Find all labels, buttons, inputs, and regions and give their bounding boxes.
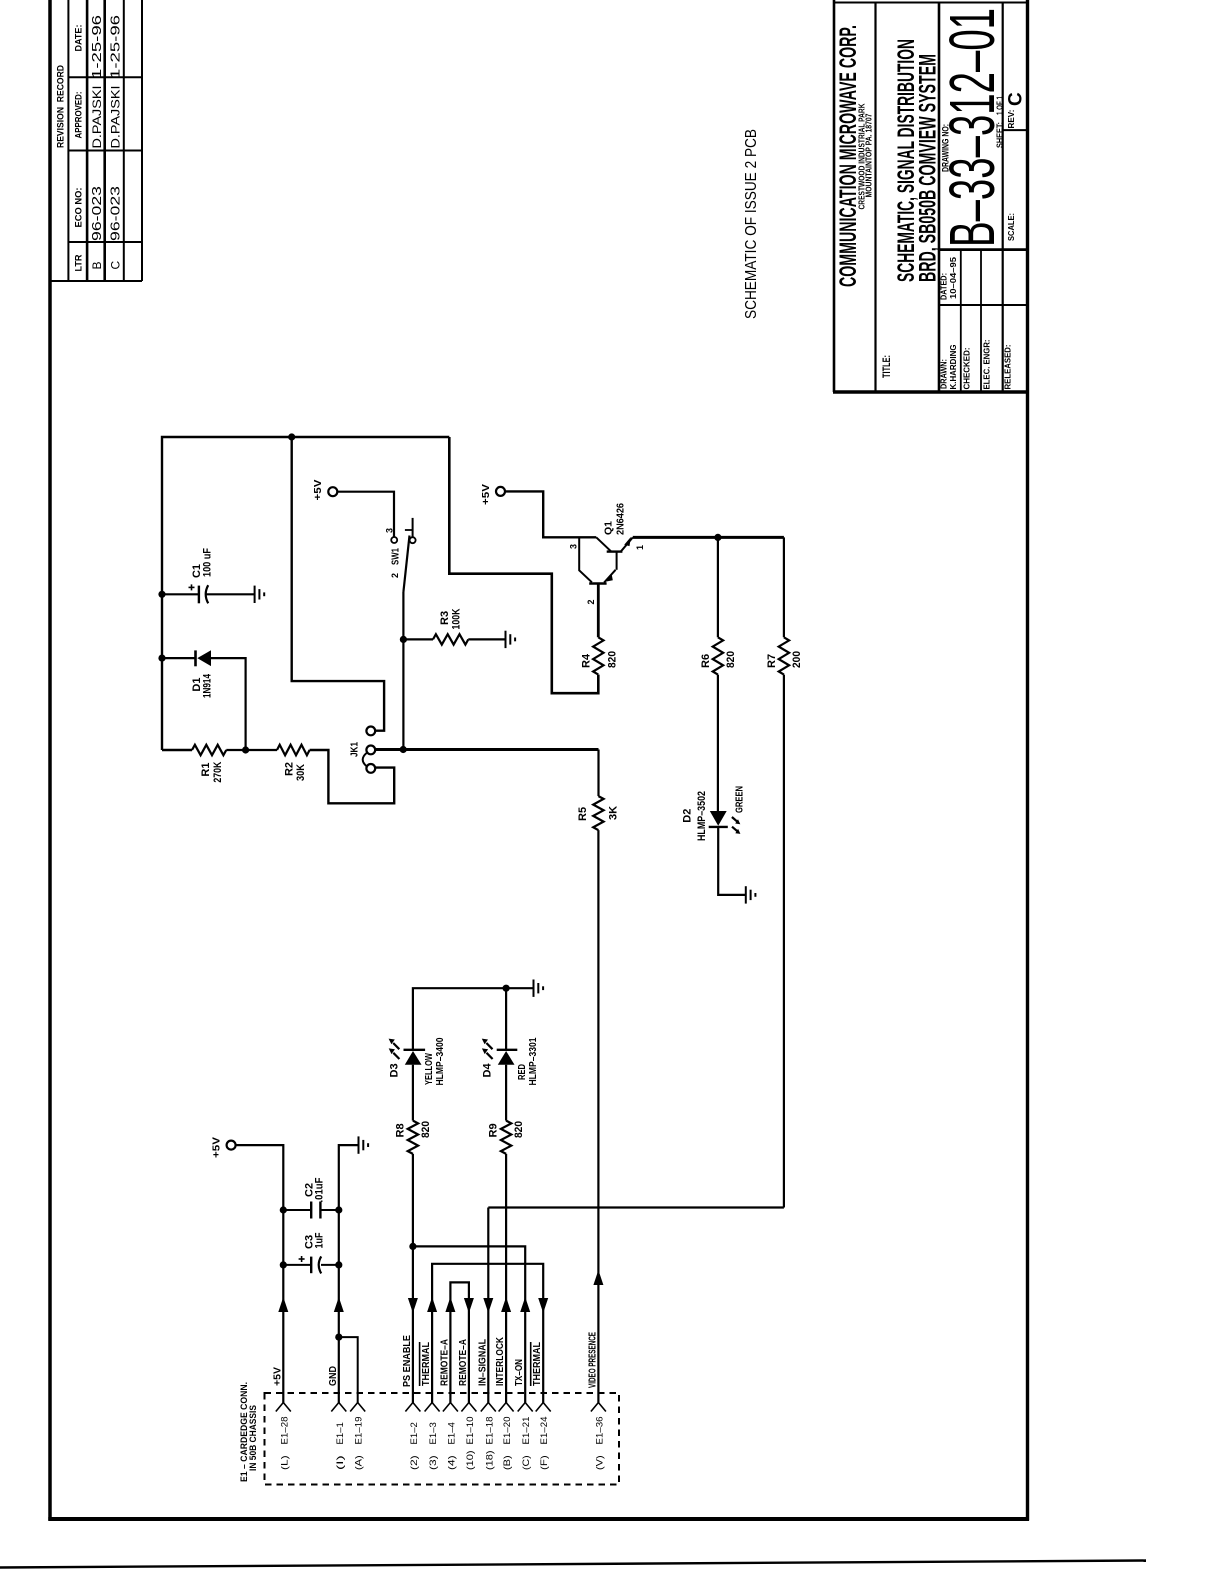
svg-text:270K: 270K	[212, 762, 224, 783]
svg-text:E1–36: E1–36	[594, 1417, 605, 1445]
svg-text:(B): (B)	[502, 1455, 513, 1470]
svg-text:D4: D4	[482, 1063, 494, 1078]
wire THERMAL pair	[432, 1264, 543, 1403]
svg-text:RELEASED:: RELEASED:	[1003, 344, 1013, 389]
svg-text:REMOTE–A: REMOTE–A	[458, 1339, 469, 1386]
svg-text:JK1: JK1	[350, 742, 361, 757]
wire JK1 wire down to R5	[597, 750, 599, 797]
svg-text:B: B	[90, 261, 104, 269]
svg-text:TX–ON: TX–ON	[514, 1359, 525, 1386]
svg-text:(I): (I)	[335, 1455, 346, 1470]
svg-text:ELEC. ENGR:: ELEC. ENGR:	[982, 339, 992, 389]
capacitor C2 stub left	[283, 1209, 311, 1211]
svg-text:THERMAL: THERMAL	[532, 1342, 543, 1386]
transistor Q1 emitter diagonal upper	[621, 537, 633, 551]
led D3 cathode bar	[404, 1049, 426, 1051]
jack JK1 lever arc	[363, 753, 367, 767]
svg-text:C: C	[109, 261, 123, 270]
svg-text:(A): (A)	[354, 1455, 365, 1470]
wire GND rail	[339, 1145, 359, 1402]
ground at R3	[505, 631, 507, 648]
led D2 emission arrows	[732, 817, 738, 822]
terminal +5V circle left	[328, 487, 337, 496]
svg-text:.01uF: .01uF	[314, 1177, 326, 1202]
switch SW1 pin1 stub	[412, 518, 414, 537]
node D4 gnd junction	[503, 985, 510, 992]
wire R1 to node	[226, 749, 277, 751]
pin contact E1-18	[481, 1403, 489, 1412]
ground at D3 D4	[533, 980, 535, 997]
wire pin1 rail corner to R7	[783, 537, 785, 637]
svg-text:+5V: +5V	[480, 484, 492, 505]
wire C1 stub	[162, 593, 199, 595]
arrow IN-SIGNAL	[483, 1298, 493, 1313]
transistor Q1 emitter diagonal lower	[604, 570, 616, 583]
capacitor C3 stub left	[283, 1264, 311, 1266]
svg-text:+5V: +5V	[312, 480, 324, 501]
wire D4 top	[505, 988, 507, 1050]
wire R9 to INTERLOCK pin	[505, 1154, 507, 1403]
wire R3 left stem	[403, 638, 433, 640]
svg-text:E1–18: E1–18	[484, 1417, 495, 1445]
svg-text:GND: GND	[328, 1366, 339, 1386]
svg-text:3K: 3K	[608, 806, 620, 820]
terminal +5V circle right	[496, 487, 505, 496]
svg-text:(2): (2)	[409, 1455, 420, 1470]
wire C1 to ground	[207, 593, 255, 595]
arrow VIDEO PRESENCE	[593, 1270, 603, 1285]
svg-text:DATE:: DATE:	[74, 25, 84, 52]
led D3 triangle	[405, 1051, 422, 1065]
svg-text:REV:: REV:	[1006, 109, 1016, 128]
diode D1 cathode bar	[194, 650, 197, 666]
switch SW1 lever	[403, 536, 409, 593]
arrow THERMAL return	[538, 1298, 548, 1313]
svg-text:VIDEO PRESENCE: VIDEO PRESENCE	[587, 1332, 598, 1388]
node C3 right	[335, 1261, 342, 1268]
sheet border left	[48, 0, 52, 1521]
svg-text:E1–24: E1–24	[539, 1417, 550, 1445]
wire +5V to Q1	[505, 491, 596, 537]
scan artifact line at bottom	[0, 1561, 1146, 1568]
svg-text:(10): (10)	[465, 1450, 476, 1470]
svg-text:E1–1: E1–1	[335, 1422, 346, 1444]
wire REMOTE-A pair	[450, 1282, 469, 1402]
svg-text:E1–19: E1–19	[354, 1417, 365, 1445]
pin contact E1-3	[425, 1403, 433, 1412]
wire D1 to R1-R2 node	[211, 658, 246, 750]
pin contact E1-24	[536, 1403, 544, 1412]
svg-text:R5: R5	[577, 807, 589, 821]
led D4 triangle	[498, 1051, 515, 1065]
svg-text:SCALE:: SCALE:	[1006, 213, 1016, 241]
svg-text:D.PAJSKI: D.PAJSKI	[90, 86, 104, 149]
node C3 left	[280, 1261, 287, 1268]
svg-text:HLMP–3400: HLMP–3400	[435, 1037, 446, 1085]
transistor Q1 base bar upper	[607, 550, 623, 552]
svg-text:REMOTE–A: REMOTE–A	[439, 1339, 450, 1386]
svg-text:200: 200	[791, 651, 803, 668]
wire R8 to PS ENABLE pin	[412, 1154, 414, 1403]
svg-text:R9: R9	[488, 1123, 500, 1137]
node PS ENABLE junction	[409, 1243, 416, 1250]
arrow TX-ON	[520, 1297, 530, 1312]
resistor R5	[593, 796, 603, 830]
resistor R3	[433, 634, 468, 644]
svg-text:ECO NO:: ECO NO:	[74, 188, 84, 228]
wire R3 right stem	[468, 638, 505, 640]
wire PS ENABLE to TX-ON	[413, 1246, 525, 1402]
pin contact E1-4	[443, 1403, 451, 1412]
svg-text:IN 50B CHASSIS: IN 50B CHASSIS	[248, 1405, 258, 1471]
svg-text:R4: R4	[581, 653, 593, 668]
svg-text:E1–4: E1–4	[446, 1422, 457, 1444]
wire rail junction to JK1 sleeve	[292, 437, 384, 731]
arrow INTERLOCK	[501, 1297, 511, 1312]
svg-text:E1–10: E1–10	[465, 1417, 476, 1445]
svg-text:(C): (C)	[521, 1455, 532, 1470]
pin contact E1-10	[461, 1403, 469, 1412]
svg-text:(V): (V)	[594, 1455, 605, 1470]
wire R2 to JK1 tip loop	[310, 750, 395, 803]
svg-text:R1: R1	[200, 763, 212, 777]
node SW1 pole junction	[400, 746, 407, 753]
revision table grid	[67, 0, 69, 281]
svg-text:YELLOW: YELLOW	[424, 1053, 435, 1085]
arrow +5V	[278, 1297, 288, 1312]
wire D2 to ground	[718, 827, 746, 895]
svg-text:1 OF 1: 1 OF 1	[994, 96, 1004, 115]
svg-text:2N6426: 2N6426	[615, 503, 627, 535]
svg-text:D3: D3	[389, 1063, 401, 1077]
pin contact E1-36	[591, 1403, 599, 1412]
svg-text:PS ENABLE: PS ENABLE	[402, 1335, 413, 1387]
svg-text:2: 2	[586, 599, 596, 604]
svg-text:1N914: 1N914	[202, 673, 214, 698]
C3 plus sign	[299, 1258, 305, 1260]
node E1-19 junction	[335, 1334, 342, 1341]
wire Q1 pin1 rail	[633, 536, 784, 539]
wire SW1 pole down	[402, 592, 404, 750]
wire D3 to R8	[412, 1065, 414, 1121]
svg-text:2: 2	[390, 573, 400, 578]
capacitor C2 plates	[310, 1202, 312, 1219]
transistor Q1 base bar lower	[589, 582, 606, 584]
svg-text:THERMAL: THERMAL	[421, 1342, 432, 1386]
svg-text:C: C	[1006, 92, 1027, 106]
wire top-right drop	[449, 437, 598, 693]
led D3 emission arrows	[393, 1043, 399, 1049]
resistor R8	[408, 1121, 418, 1154]
svg-text:1: 1	[635, 545, 645, 550]
arrow THERMAL	[427, 1297, 437, 1312]
node C1 rail junction	[158, 591, 165, 598]
resistor R9	[501, 1121, 511, 1154]
resistor R4	[593, 637, 603, 674]
svg-text:96-023: 96-023	[108, 186, 123, 241]
wire R6 top lead	[717, 537, 719, 637]
pin contact E1-20	[499, 1403, 507, 1412]
svg-text:3: 3	[385, 528, 395, 533]
svg-text:+5V: +5V	[272, 1367, 283, 1386]
led D4 emission arrows	[486, 1043, 492, 1049]
svg-text:30K: 30K	[295, 764, 307, 781]
svg-text:D2: D2	[682, 809, 694, 823]
svg-text:820: 820	[513, 1121, 525, 1138]
svg-text:RED: RED	[517, 1064, 528, 1080]
arrow REMOTE-A	[445, 1297, 455, 1312]
led D2 triangle	[710, 811, 727, 826]
capacitor C1 plates	[198, 586, 200, 604]
sheet border bottom	[48, 1517, 1029, 1521]
wire Q1 inner base link	[616, 552, 618, 570]
svg-text:CHECKED:: CHECKED:	[962, 347, 972, 389]
svg-text:100K: 100K	[451, 608, 463, 629]
svg-text:SW1: SW1	[390, 548, 402, 565]
node C2 left	[280, 1206, 287, 1213]
svg-text:DRAWN:: DRAWN:	[939, 359, 949, 389]
wire D4 to R9	[505, 1065, 507, 1121]
wire left rail and top rail	[162, 437, 449, 750]
ground at D2	[745, 886, 747, 903]
node R6 top junction	[714, 534, 721, 541]
node R1-R2-D1 junction	[242, 746, 249, 753]
ground at GND rail top	[358, 1136, 360, 1153]
wire D3 top to ground rail	[413, 988, 534, 1050]
connector E1 dashed box	[265, 1393, 620, 1485]
jack JK1 contact C circle	[366, 764, 375, 773]
svg-text:100 uF: 100 uF	[202, 548, 214, 577]
svg-text:(F): (F)	[539, 1455, 550, 1470]
resistor R2	[277, 745, 310, 755]
node D1 rail junction	[158, 655, 165, 662]
node junction top rail	[288, 433, 295, 440]
wire Q1 base tee drop	[579, 537, 592, 582]
svg-text:3: 3	[569, 544, 579, 549]
svg-text:1-25-96: 1-25-96	[108, 15, 123, 79]
terminal +5V circle bottom	[227, 1141, 236, 1150]
jack JK1 contact A circle	[366, 727, 375, 736]
svg-text:R2: R2	[283, 762, 295, 776]
svg-text:(3): (3)	[428, 1455, 439, 1470]
pin contact E1-21	[518, 1403, 526, 1412]
resistor R6	[713, 637, 723, 674]
wire JK1-B to R5 column	[375, 748, 598, 751]
svg-text:E1–21: E1–21	[521, 1417, 532, 1445]
capacitor C3 stub right	[321, 1264, 339, 1266]
switch SW1 pin1 contact	[410, 537, 416, 543]
arrow GND	[334, 1297, 344, 1312]
pin contact E1-2	[405, 1403, 413, 1412]
wire IN-SIGNAL drop	[487, 1208, 489, 1403]
capacitor C3 plates	[310, 1257, 312, 1274]
svg-text:1uF: 1uF	[314, 1232, 326, 1248]
resistor R7	[779, 637, 789, 674]
wire rail to R1	[162, 749, 192, 751]
title block dividers	[874, 2, 876, 392]
svg-text:1-25-96: 1-25-96	[89, 15, 104, 79]
svg-text:820: 820	[607, 651, 619, 668]
capacitor C2 stub right	[320, 1209, 338, 1211]
transistor Q1 collector diagonal upper	[596, 537, 611, 551]
wire R5 to VIDEO PRESENCE pin	[597, 830, 599, 1402]
svg-text:DATED:: DATED:	[939, 273, 949, 300]
svg-text:+5V: +5V	[211, 1137, 223, 1158]
svg-text:(L): (L)	[279, 1455, 290, 1470]
wire +5V bottom rail	[236, 1145, 284, 1402]
svg-text:INTERLOCK: INTERLOCK	[495, 1336, 506, 1386]
svg-text:R7: R7	[766, 654, 778, 668]
sheet border right	[1026, 0, 1029, 1521]
svg-text:R3: R3	[439, 611, 451, 625]
svg-text:Q1: Q1	[603, 521, 615, 535]
ground at C1	[254, 586, 256, 603]
svg-text:820: 820	[725, 651, 737, 668]
switch SW1 pin3 contact	[391, 537, 397, 543]
wire R7 down	[783, 675, 785, 1208]
svg-text:TITLE:: TITLE:	[881, 355, 893, 378]
wire +5V to SW1 pin3	[337, 492, 394, 537]
svg-text:REVISION RECORD: REVISION RECORD	[56, 65, 66, 148]
svg-text:APPROVED:: APPROVED:	[74, 92, 84, 139]
led D4 cathode bar	[497, 1049, 518, 1051]
node R3 junction	[400, 636, 407, 643]
led D2 cathode bar	[709, 826, 728, 828]
svg-text:820: 820	[420, 1121, 432, 1138]
svg-text:D.PAJSKI: D.PAJSKI	[109, 86, 123, 149]
svg-text:(4): (4)	[446, 1455, 457, 1470]
svg-text:IN–SIGNAL: IN–SIGNAL	[477, 1339, 488, 1386]
title block outer lines	[833, 0, 836, 392]
wire R6 to D2	[717, 675, 719, 811]
pin contact E1-28	[276, 1403, 284, 1412]
wire E1-19 tie to GND	[339, 1337, 358, 1402]
node C2 right	[335, 1206, 342, 1213]
transistor Q1 emitter arrow upper	[624, 537, 631, 546]
svg-text:LTR: LTR	[74, 254, 84, 272]
svg-text:10–04–95: 10–04–95	[948, 257, 958, 299]
svg-text:K.HARDING: K.HARDING	[948, 344, 958, 389]
svg-text:GREEN: GREEN	[735, 786, 746, 813]
svg-text:R8: R8	[395, 1123, 407, 1137]
diode D1 triangle	[197, 650, 211, 666]
wire D1 stub	[162, 657, 196, 659]
svg-text:SCHEMATIC OF ISSUE 2 PCB: SCHEMATIC OF ISSUE 2 PCB	[743, 129, 760, 319]
svg-text:E1–28: E1–28	[279, 1417, 290, 1445]
svg-text:MOUNTAINTOP PA. 18707: MOUNTAINTOP PA. 18707	[864, 113, 874, 197]
svg-text:(18): (18)	[484, 1450, 495, 1470]
resistor R1	[192, 745, 226, 755]
svg-text:E1–3: E1–3	[428, 1422, 439, 1444]
svg-text:E1–20: E1–20	[502, 1417, 513, 1445]
switch SW1 pin1 label tick	[405, 529, 413, 531]
svg-text:HLMP–3502: HLMP–3502	[696, 791, 708, 841]
svg-text:R6: R6	[700, 654, 712, 668]
svg-text:E1–2: E1–2	[409, 1422, 420, 1444]
pin contact E1-1	[331, 1403, 339, 1412]
wire Q1 pin2 to R4	[597, 584, 600, 638]
arrow REMOTE-A return	[464, 1298, 474, 1313]
arrow PS ENABLE	[408, 1298, 418, 1313]
svg-text:HLMP–3301: HLMP–3301	[528, 1037, 539, 1085]
wire R7 to IN-SIGNAL	[488, 1206, 784, 1208]
jack JK1 contact B circle	[366, 746, 375, 755]
transistor Q1 emitter arrow lower	[605, 574, 613, 582]
C1 plus sign	[189, 586, 195, 588]
pin contact E1-19	[350, 1403, 358, 1412]
svg-text:SHEET:: SHEET:	[994, 122, 1004, 148]
svg-text:96-023: 96-023	[89, 186, 104, 241]
